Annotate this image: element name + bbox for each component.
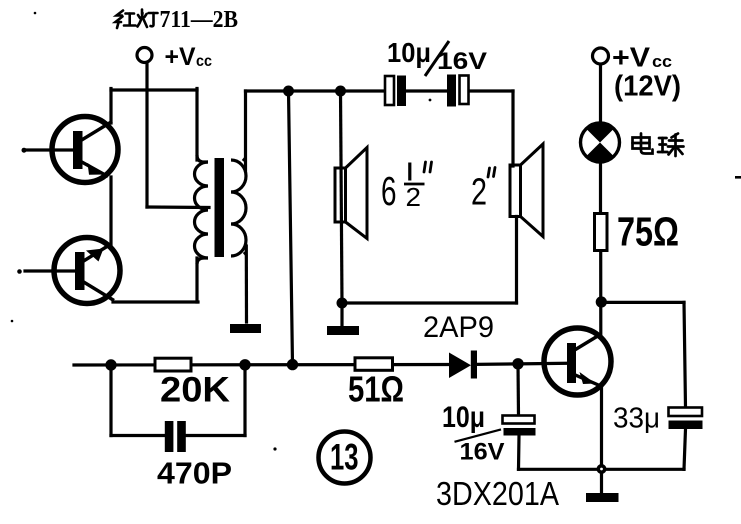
svg-text:+V: +V — [165, 43, 196, 71]
svg-text:(12V): (12V) — [614, 71, 681, 103]
svg-text:+V: +V — [612, 42, 650, 73]
svg-text:51Ω: 51Ω — [348, 369, 404, 410]
svg-text:cc: cc — [652, 52, 672, 71]
svg-text:711—2B: 711—2B — [160, 7, 239, 33]
svg-text:20K: 20K — [160, 371, 230, 410]
svg-text:16V: 16V — [437, 48, 487, 75]
svg-text:3DX201A: 3DX201A — [436, 475, 559, 512]
svg-text:16V: 16V — [460, 439, 505, 466]
svg-text:2: 2 — [471, 172, 487, 214]
svg-text:6: 6 — [381, 168, 397, 214]
svg-text:13: 13 — [330, 437, 359, 478]
svg-text:33μ: 33μ — [613, 403, 660, 435]
svg-text:470P: 470P — [157, 457, 232, 491]
svg-text:10μ: 10μ — [442, 401, 485, 434]
svg-text:75Ω: 75Ω — [617, 209, 679, 255]
svg-text:10μ: 10μ — [387, 37, 431, 68]
svg-text:cc: cc — [196, 53, 212, 70]
svg-text:2: 2 — [406, 182, 422, 212]
svg-text:2AP9: 2AP9 — [423, 311, 494, 344]
